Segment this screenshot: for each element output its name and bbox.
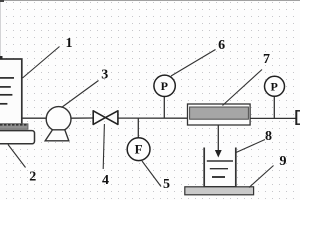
svg-text:8: 8 xyxy=(265,129,272,144)
top border line xyxy=(0,0,300,58)
vessel 1 xyxy=(0,56,22,124)
pressure gauge P 6 (left) xyxy=(154,75,175,118)
beaker 8 xyxy=(204,148,236,187)
svg-text:9: 9 xyxy=(280,154,287,169)
svg-text:3: 3 xyxy=(101,68,108,83)
leader line to label 9 xyxy=(249,166,274,188)
svg-text:4: 4 xyxy=(102,173,109,188)
leader line to label 8 xyxy=(236,140,265,153)
leader line to label 3 xyxy=(62,81,99,108)
tray 9 xyxy=(185,187,254,195)
svg-text:5: 5 xyxy=(163,177,170,192)
svg-text:1: 1 xyxy=(66,36,73,51)
valve 4 xyxy=(93,111,118,125)
svg-text:2: 2 xyxy=(29,170,36,185)
pump 3 xyxy=(45,107,71,141)
pressure gauge P (right) xyxy=(265,76,285,118)
outlet end fitting xyxy=(296,110,300,125)
leader line to label 5 xyxy=(142,161,161,187)
membrane module 7 xyxy=(188,104,251,125)
wire: pipe pump to valve xyxy=(71,117,94,119)
wire: pipe vessel to pump xyxy=(22,117,47,119)
svg-text:6: 6 xyxy=(218,38,225,53)
svg-text:P: P xyxy=(271,79,278,93)
leader line to label 4 xyxy=(103,124,104,169)
stirrer 2 xyxy=(0,124,35,144)
leader line to label 7 xyxy=(223,70,263,106)
svg-text:P: P xyxy=(161,79,168,93)
leader line to label 2 xyxy=(8,145,26,168)
wire: pipe valve to module xyxy=(118,117,188,119)
outlet arrow into beaker xyxy=(215,125,222,158)
svg-text:F: F xyxy=(135,142,143,157)
flow meter F 5 xyxy=(127,118,150,161)
leader line to label 1 xyxy=(23,47,60,79)
leader line to label 6 xyxy=(171,50,216,77)
svg-text:7: 7 xyxy=(263,52,270,67)
wire: pipe module to outlet xyxy=(250,117,296,119)
